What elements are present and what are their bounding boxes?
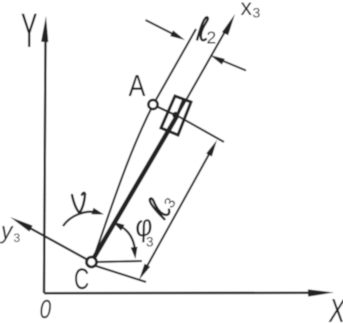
y3 axis line xyxy=(10,217,88,260)
svg-text:3: 3 xyxy=(14,231,21,245)
svg-text:x: x xyxy=(241,0,253,20)
x3 axis label xyxy=(241,0,261,21)
dimension line l3 xyxy=(139,140,217,280)
slider block on link 3 xyxy=(161,96,191,135)
label l2 (script ell with subscript 2) xyxy=(197,16,208,40)
Y axis line xyxy=(41,16,48,293)
horizontal reference line from C xyxy=(97,261,142,262)
origin label 0 xyxy=(40,295,52,323)
svg-text:A: A xyxy=(129,69,146,104)
dimension line l2 left segment xyxy=(146,20,186,40)
angle nu arc with arrow xyxy=(63,208,104,226)
slider center pin xyxy=(172,112,178,118)
joint A circle xyxy=(148,100,157,109)
svg-text:Y: Y xyxy=(21,5,37,58)
extension line from slider pin for dimension l3 xyxy=(176,115,224,142)
extension line from C for dimension l3 xyxy=(96,266,146,282)
svg-text:0: 0 xyxy=(40,295,52,323)
svg-text:X: X xyxy=(328,293,343,323)
label A xyxy=(129,69,146,104)
label phi3 xyxy=(133,207,155,249)
label C xyxy=(74,264,89,296)
label l3 (script ell with subscript 3) xyxy=(145,189,180,222)
angle phi3 arc with arrows xyxy=(113,222,138,260)
link from joint A to slider pin xyxy=(158,107,173,114)
dimension line l2 right segment xyxy=(210,55,246,71)
y3 axis label xyxy=(0,218,21,246)
svg-text:y: y xyxy=(0,218,14,244)
X axis label xyxy=(328,293,343,323)
link 3 rod (thick) xyxy=(92,99,184,261)
Y axis label xyxy=(21,5,37,58)
joint C circle xyxy=(87,257,97,267)
svg-text:3: 3 xyxy=(146,235,154,250)
svg-text:2: 2 xyxy=(207,28,217,48)
label nu xyxy=(72,193,85,213)
x3 axis line xyxy=(177,14,235,116)
svg-text:3: 3 xyxy=(253,5,261,21)
X axis line xyxy=(44,289,334,296)
link CA line xyxy=(92,29,196,262)
svg-text:C: C xyxy=(74,264,89,296)
